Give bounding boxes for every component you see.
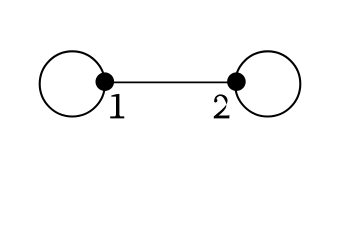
- node 2: [227, 72, 246, 91]
- self-loop at node 1: [40, 51, 105, 116]
- wire edge 1-2: [105, 81, 237, 83]
- self-loop at node 2: [235, 51, 300, 116]
- node 1: [96, 72, 115, 91]
- label 1: [110, 94, 124, 119]
- label 2: [214, 94, 230, 118]
